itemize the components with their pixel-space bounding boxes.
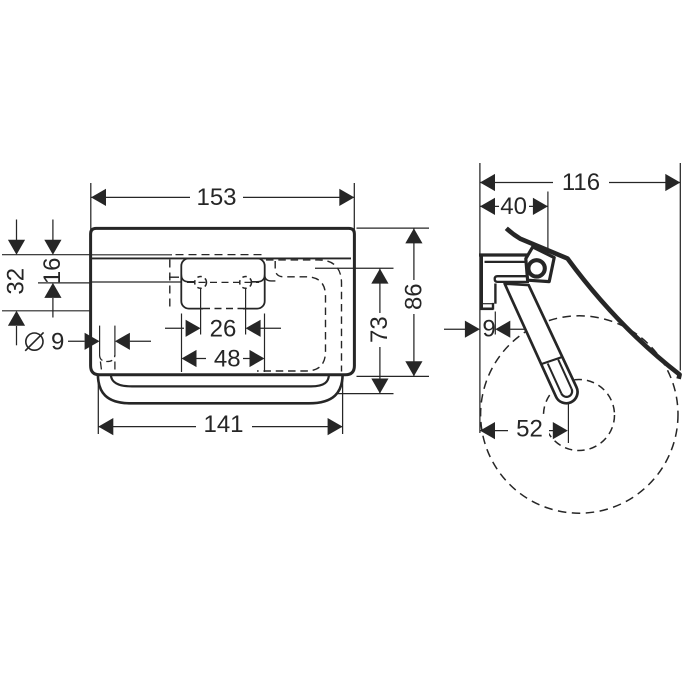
recess hidden ledge left <box>169 276 179 278</box>
dia 9 extension lines <box>99 326 101 356</box>
svg-text:40: 40 <box>500 193 527 220</box>
dim 48 <box>197 358 207 360</box>
dim 32 <box>16 220 18 346</box>
svg-text:32: 32 <box>2 268 29 295</box>
bracket left edge <box>480 254 483 309</box>
svg-text:9: 9 <box>51 328 64 355</box>
svg-text:73: 73 <box>366 316 393 343</box>
big roll dashed circle <box>481 316 678 513</box>
hole center height line left of plate <box>91 281 181 283</box>
dim 73 <box>315 268 394 393</box>
svg-text:141: 141 <box>203 411 243 438</box>
lid seam lower line <box>91 257 351 259</box>
bracket foot <box>480 307 493 310</box>
bracket top edge <box>479 253 530 256</box>
dim 153 <box>91 183 355 233</box>
svg-text:26: 26 <box>210 315 237 342</box>
right extension line <box>679 163 681 371</box>
screw hole right <box>240 277 252 289</box>
ledge line through plate <box>181 275 264 282</box>
roll bar inner edge <box>111 375 329 386</box>
arm (over circles) <box>505 284 578 404</box>
dia 9 label <box>26 333 43 350</box>
plate inner face <box>494 284 496 304</box>
dim 9 (depth) <box>444 328 465 330</box>
dim 116 <box>480 182 680 184</box>
recess hidden outline inner right <box>257 261 326 371</box>
left extension lines <box>2 255 90 311</box>
dim 26 <box>165 327 184 329</box>
hinge housing <box>526 247 554 282</box>
hidden roll-bar end dashes <box>100 362 101 370</box>
lid seam upper line <box>91 254 172 256</box>
plate bottom middle drawn dashed <box>203 307 243 310</box>
body outline <box>91 228 355 374</box>
svg-text:9: 9 <box>482 316 495 343</box>
screw hole left <box>195 277 207 289</box>
hinge pin <box>528 260 544 276</box>
roll bar outer edge <box>98 375 343 403</box>
dim 16 <box>52 220 54 318</box>
svg-text:116: 116 <box>562 169 600 196</box>
mounting plate <box>181 258 264 308</box>
dim 141 <box>98 378 342 435</box>
arm tick <box>542 357 563 364</box>
dim 40 <box>480 205 548 207</box>
ledge stub right of plate <box>265 275 276 281</box>
wall extension line <box>479 163 481 433</box>
dim 52 <box>480 430 553 432</box>
recess hidden top edge over lid <box>176 254 264 256</box>
dim 86 <box>357 228 430 376</box>
bracket under seam line <box>485 261 526 263</box>
recess hidden outline outer right <box>266 260 342 372</box>
arm inner tube end <box>561 389 572 397</box>
svg-text:48: 48 <box>214 345 241 372</box>
arm mount bar <box>495 276 529 282</box>
screw holes center line <box>187 281 259 283</box>
recess hidden left edge <box>169 260 171 308</box>
svg-text:52: 52 <box>516 416 543 443</box>
svg-text:153: 153 <box>196 184 236 211</box>
roll core dashed circle <box>544 380 615 451</box>
svg-text:16: 16 <box>39 257 66 284</box>
svg-text:86: 86 <box>400 283 427 310</box>
cover flap <box>506 228 679 378</box>
